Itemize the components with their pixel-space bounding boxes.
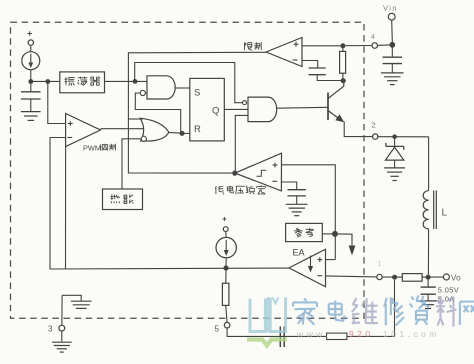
- svg-text:3: 3: [48, 325, 53, 334]
- svg-text:L: L: [442, 208, 448, 219]
- svg-text:1: 1: [378, 261, 382, 268]
- svg-text:5.05V: 5.05V: [438, 285, 459, 294]
- svg-text:920: 920: [349, 329, 374, 339]
- svg-text:www.: www.: [296, 329, 331, 339]
- svg-text:EA: EA: [293, 248, 305, 258]
- svg-text:2: 2: [372, 121, 376, 130]
- svg-text:S: S: [194, 88, 200, 99]
- svg-text:5: 5: [215, 325, 220, 334]
- svg-text:R: R: [194, 124, 201, 135]
- svg-text:4: 4: [371, 34, 375, 41]
- svg-text:Vin: Vin: [383, 4, 398, 13]
- svg-text:PWM: PWM: [83, 143, 101, 152]
- svg-text:101.com: 101.com: [383, 329, 440, 339]
- svg-text:Q: Q: [212, 106, 219, 117]
- svg-text:Vo: Vo: [451, 272, 461, 282]
